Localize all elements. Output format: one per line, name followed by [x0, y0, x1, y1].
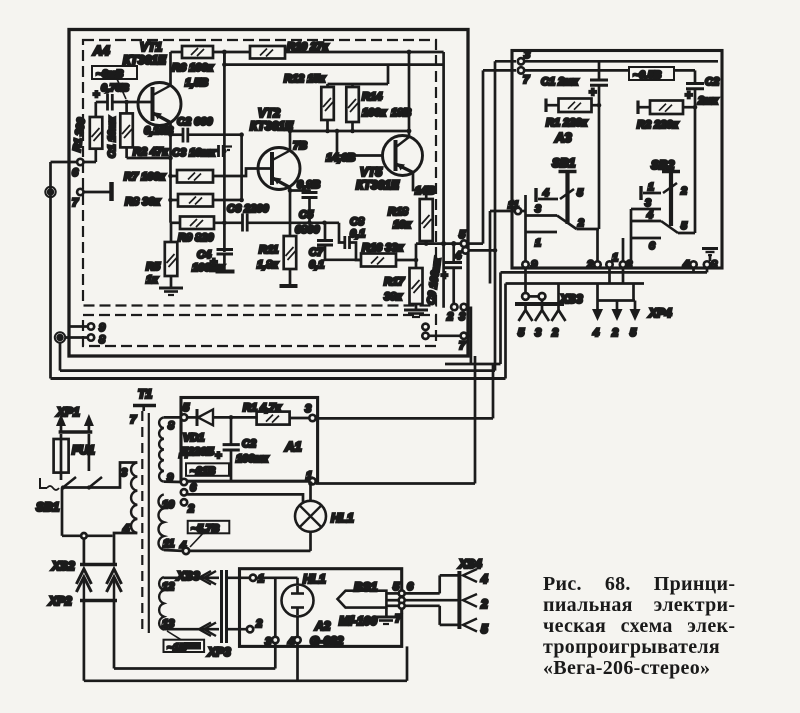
wire to C5	[290, 191, 310, 193]
bus x483	[482, 70, 485, 243]
long wire y272	[501, 271, 708, 274]
transistor VT5	[383, 136, 423, 176]
svg-text:HL1: HL1	[331, 511, 354, 525]
svg-text:SB1: SB1	[36, 500, 60, 514]
long wire y283	[506, 282, 645, 285]
SB2 contact 6	[631, 237, 661, 240]
svg-text:R14: R14	[362, 91, 382, 103]
dashed sub-box pins	[83, 315, 436, 346]
SB2 contact 2	[663, 183, 677, 193]
svg-text:4: 4	[682, 259, 689, 271]
wire contact5 to C2 line	[678, 232, 695, 235]
svg-text:ХР1: ХР1	[56, 405, 80, 419]
plug pin2 wire	[88, 434, 91, 471]
A3 bottom pin 3b	[620, 261, 626, 267]
wire R8 right	[213, 199, 242, 202]
wires to XS4	[405, 592, 440, 595]
A3 pin 3	[518, 58, 524, 64]
svg-text:А1: А1	[284, 439, 302, 454]
supply rail right	[285, 51, 444, 54]
svg-text:4: 4	[480, 572, 488, 586]
svg-text:+: +	[215, 450, 222, 462]
A2 pin 4	[294, 637, 300, 643]
svg-text:5: 5	[681, 220, 687, 232]
pin 6	[77, 159, 83, 165]
A3 bottom pin 2	[594, 261, 600, 267]
svg-text:8: 8	[99, 334, 106, 346]
svg-text:9: 9	[531, 259, 538, 271]
21V box	[186, 463, 229, 476]
svg-text:8: 8	[168, 420, 175, 432]
svg-text:2: 2	[680, 185, 687, 197]
A2 pin 2	[247, 626, 253, 632]
svg-text:11: 11	[163, 538, 174, 550]
svg-text:C7: C7	[309, 247, 324, 259]
0,5V box	[629, 67, 674, 80]
svg-text:7: 7	[72, 197, 79, 209]
svg-text:Т1: Т1	[138, 387, 152, 401]
wire pin4 to lamp	[189, 550, 310, 553]
junction to XS2	[62, 534, 113, 537]
svg-text:6: 6	[649, 240, 655, 252]
svg-text:3: 3	[535, 203, 541, 215]
wire contact2 to C1 line	[577, 228, 600, 231]
wire pin4b down	[692, 268, 695, 273]
A3 block box	[512, 51, 722, 269]
svg-text:1: 1	[535, 237, 541, 249]
svg-text:+: +	[589, 85, 596, 99]
resistor R2 220k	[636, 101, 639, 115]
svg-text:R7 100к: R7 100к	[124, 171, 166, 183]
svg-text:FU1: FU1	[72, 443, 95, 457]
svg-text:2: 2	[611, 327, 618, 339]
svg-text:4: 4	[592, 327, 599, 339]
svg-text:КТ361Е: КТ361Е	[123, 53, 167, 67]
svg-text:0,1: 0,1	[350, 228, 365, 240]
svg-text:7: 7	[395, 613, 402, 625]
svg-text:39к: 39к	[384, 291, 403, 303]
bottom wire 2	[84, 679, 407, 682]
svg-text:4: 4	[287, 636, 294, 648]
wire terminal1 down	[49, 162, 52, 379]
svg-text:2: 2	[446, 311, 453, 323]
pin 7	[77, 189, 83, 195]
svg-text:R17: R17	[384, 276, 405, 288]
wire pin3 right	[316, 417, 493, 420]
svg-text:2: 2	[480, 597, 488, 611]
wire R12-R14 top	[328, 83, 389, 86]
svg-text:3: 3	[121, 467, 127, 479]
T1 pins 6 2	[181, 489, 187, 495]
SB1 left post	[524, 195, 527, 261]
A2 pin 1	[250, 575, 256, 581]
A3 bottom pin 9	[522, 261, 528, 267]
svg-text:7В: 7В	[293, 140, 307, 152]
svg-text:Мf-100: Мf-100	[339, 614, 377, 628]
BS1 ground	[385, 608, 388, 616]
svg-text:XS4: XS4	[458, 557, 482, 571]
resistor R2 47k	[125, 102, 128, 113]
5,7V box	[188, 521, 230, 534]
electrode bar	[109, 182, 114, 201]
wire x493 down to A1 pin3	[492, 364, 495, 418]
svg-text:~3мВ: ~3мВ	[96, 68, 124, 80]
VT5 emitter wire	[413, 173, 426, 200]
svg-text:2мк: 2мк	[697, 95, 719, 107]
wire pin7 rail	[525, 69, 696, 72]
input terminal 2	[55, 332, 65, 342]
SB2 left post	[630, 209, 633, 261]
VT1 emitter column	[169, 123, 172, 223]
svg-text:100мк: 100мк	[236, 453, 269, 465]
svg-text:R6 100к: R6 100к	[172, 62, 214, 74]
svg-text:КТ361Е: КТ361Е	[356, 178, 400, 192]
svg-text:6: 6	[190, 482, 197, 494]
svg-text:R11: R11	[259, 244, 278, 256]
SB2 contact 5	[661, 221, 678, 233]
svg-text:~5,7В: ~5,7В	[191, 523, 220, 535]
A2 pin 3	[256, 576, 297, 579]
svg-text:R12 15к: R12 15к	[284, 73, 326, 85]
A3 bottom pin 1	[606, 261, 612, 267]
svg-text:2: 2	[586, 259, 593, 271]
svg-text:R9 820: R9 820	[178, 232, 214, 244]
svg-text:R2 220к: R2 220к	[637, 119, 679, 131]
XP2 arrows	[76, 569, 91, 584]
wire to pin 9	[70, 325, 88, 328]
capacitor C5 6800	[302, 191, 318, 194]
svg-text:С1 2мк: С1 2мк	[541, 76, 579, 88]
wire R16 up to C9 row	[415, 244, 418, 260]
svg-text:6800: 6800	[295, 224, 320, 236]
VT5 collector wire	[408, 52, 411, 137]
wire R6 to R10	[213, 51, 250, 54]
XS3 sockets	[519, 304, 526, 321]
svg-text:3: 3	[626, 259, 632, 271]
svg-text:R5: R5	[146, 261, 161, 273]
svg-text:2: 2	[255, 618, 262, 630]
wire VT1 base	[96, 101, 107, 104]
wire A3pin3 long	[495, 60, 516, 63]
A3 pin 7	[518, 67, 524, 73]
input terminal 1	[45, 187, 55, 197]
svg-text:С1 10мк: С1 10мк	[106, 116, 118, 158]
svg-text:2: 2	[577, 217, 584, 229]
svg-text:4: 4	[454, 250, 461, 262]
svg-text:5: 5	[459, 229, 466, 241]
resistor R10 27k	[250, 46, 285, 59]
wire pin1 right	[316, 482, 475, 485]
svg-text:5: 5	[577, 187, 583, 199]
A3 ground pin 8	[704, 261, 710, 267]
capacitor C1	[106, 94, 109, 111]
resistor R1 390	[94, 102, 97, 117]
ground VT2 emitter	[280, 284, 298, 288]
svg-text:3: 3	[645, 197, 651, 209]
VT2 emitter wire	[289, 188, 292, 237]
svg-text:R18: R18	[388, 206, 409, 218]
svg-text:3: 3	[524, 49, 530, 61]
svg-text:~21В: ~21В	[190, 465, 216, 477]
pin 4 out	[462, 247, 468, 253]
svg-text:A4: A4	[92, 43, 110, 58]
wire SB1 pin11	[490, 210, 515, 213]
wire bus x443	[442, 52, 445, 308]
collector rail y131	[290, 130, 409, 133]
amplifier outer box	[69, 30, 468, 357]
VT1 collector wire	[169, 52, 172, 86]
pin 9	[88, 323, 94, 329]
wire C2 junction down	[240, 135, 243, 200]
svg-text:R8 36к: R8 36к	[125, 196, 161, 208]
junction row y243.6	[416, 242, 461, 245]
wire R7 to VT2 base	[213, 169, 272, 177]
svg-text:100к: 100к	[362, 107, 387, 119]
svg-text:10к: 10к	[393, 219, 412, 231]
SB2 contact 3	[631, 208, 661, 211]
svg-text:2: 2	[187, 503, 194, 515]
svg-text:1,5В: 1,5В	[185, 77, 208, 89]
wire pin6 to R1	[84, 161, 96, 164]
svg-text:3: 3	[265, 636, 271, 648]
svg-text:7: 7	[523, 74, 530, 86]
SB1 contact 5	[560, 189, 574, 199]
wire A3pin7 long	[483, 69, 516, 72]
mV box	[92, 66, 137, 79]
VT2 collector wire	[289, 131, 292, 151]
svg-text:R1 220к: R1 220к	[546, 117, 588, 129]
svg-text:0,75В: 0,75В	[101, 82, 129, 94]
svg-text:ХР4: ХР4	[648, 306, 672, 320]
svg-text:14,6В: 14,6В	[326, 152, 355, 164]
dashed box right pins	[422, 324, 428, 330]
XP2 wires down	[83, 601, 86, 681]
svg-text:5: 5	[518, 327, 525, 339]
svg-text:3: 3	[535, 327, 541, 339]
svg-text:3: 3	[459, 311, 465, 323]
svg-text:КТ361Е: КТ361Е	[250, 119, 294, 133]
svg-text:6: 6	[407, 581, 414, 593]
pins 2 3 bottom	[451, 304, 457, 310]
svg-text:~0,5В: ~0,5В	[633, 69, 662, 81]
SB1 contact 4	[534, 188, 537, 202]
svg-text:+: +	[210, 255, 217, 269]
svg-text:9: 9	[99, 322, 106, 334]
resistor R6 100k	[182, 46, 213, 58]
svg-text:2: 2	[551, 327, 558, 339]
dashed box A4	[83, 40, 436, 306]
svg-text:C5: C5	[299, 209, 314, 221]
SB1 contact 2	[557, 216, 577, 230]
svg-text:7: 7	[130, 414, 137, 426]
svg-text:SB1: SB1	[552, 156, 576, 170]
svg-text:С6 2200: С6 2200	[227, 203, 269, 215]
T1 core	[141, 411, 143, 634]
VT5 base wire	[337, 131, 383, 156]
svg-text:14В: 14В	[415, 185, 435, 197]
wire pin6 right	[187, 494, 303, 503]
svg-text:4: 4	[542, 187, 549, 199]
svg-text:Д226Б: Д226Б	[179, 446, 214, 458]
svg-text:ХР2: ХР2	[48, 594, 72, 608]
wire pin3 rail	[525, 60, 719, 63]
long wires below amp	[60, 369, 495, 372]
svg-text:0,1: 0,1	[309, 259, 324, 271]
transistor VT2	[258, 148, 300, 190]
svg-text:C8: C8	[350, 216, 365, 228]
svg-text:С2: С2	[242, 438, 256, 450]
A3 bottom pin 4b	[690, 261, 696, 267]
wire to pin 6	[51, 161, 77, 164]
wire to pin 8	[65, 336, 87, 339]
svg-text:HL1: HL1	[303, 572, 326, 586]
pin 8	[88, 334, 94, 340]
bus x495	[494, 61, 497, 370]
SB1 contact 1	[526, 231, 558, 234]
transistor VT1	[138, 83, 181, 126]
svg-text:5: 5	[481, 622, 488, 636]
ground R5	[159, 287, 183, 290]
svg-text:5: 5	[630, 327, 637, 339]
SB2 contact 4	[631, 220, 661, 223]
wire R2 to emitter	[127, 157, 171, 160]
resistor R12	[326, 84, 329, 87]
svg-text:VT5: VT5	[360, 165, 382, 179]
svg-text:R2 47к: R2 47к	[133, 146, 169, 158]
block A2	[240, 569, 402, 647]
svg-text:А3: А3	[554, 130, 572, 145]
SB1 contact 3	[526, 214, 558, 217]
svg-text:+: +	[685, 88, 692, 102]
svg-text:6: 6	[72, 167, 79, 179]
ground R17	[404, 309, 428, 312]
svg-text:А2: А2	[314, 619, 331, 633]
svg-text:G-602: G-602	[310, 634, 344, 648]
wire pin9 down	[524, 268, 527, 293]
wire x475 down to A1 pin1	[474, 356, 477, 484]
svg-text:5: 5	[183, 402, 190, 414]
svg-text:1к: 1к	[146, 274, 159, 286]
resistor R1 220k	[544, 99, 547, 113]
svg-text:7: 7	[459, 340, 466, 352]
pin 5 out	[461, 240, 467, 246]
svg-text:VD1: VD1	[183, 432, 204, 444]
svg-text:~1В: ~1В	[167, 642, 187, 654]
svg-text:4: 4	[646, 209, 653, 221]
block A1	[181, 398, 318, 482]
main vertical bus	[223, 52, 226, 65]
feedback wire	[224, 52, 443, 65]
svg-text:С3 10мк: С3 10мк	[172, 147, 216, 159]
pointer line	[117, 79, 126, 99]
wire terminal2 down	[59, 343, 62, 371]
svg-text:3: 3	[305, 403, 311, 415]
svg-text:VT2: VT2	[258, 106, 280, 120]
svg-text:С2: С2	[705, 76, 719, 88]
svg-text:XS2: XS2	[51, 559, 75, 573]
svg-text:VT1: VT1	[140, 40, 162, 54]
wire pin7 to bar	[84, 191, 110, 194]
svg-text:ХР3: ХР3	[207, 645, 231, 659]
svg-text:С2 660: С2 660	[177, 116, 213, 128]
capacitor C1	[598, 61, 601, 80]
svg-text:C4: C4	[197, 249, 211, 261]
svg-text:1: 1	[612, 252, 618, 264]
svg-text:1,8к: 1,8к	[257, 259, 279, 271]
wire R9 to C6	[214, 221, 242, 224]
svg-text:XS3: XS3	[176, 569, 200, 583]
svg-text:8: 8	[711, 259, 718, 271]
svg-text:+: +	[93, 89, 100, 101]
SB2 contact 1	[639, 186, 642, 200]
svg-text:1: 1	[648, 181, 654, 193]
XP3 box	[164, 640, 205, 652]
bottom wire 1	[114, 667, 275, 670]
